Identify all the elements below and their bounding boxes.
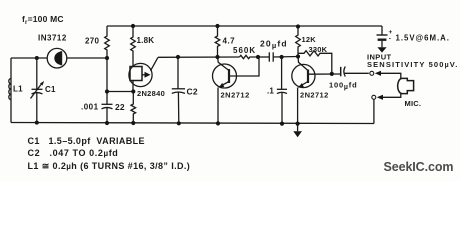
- svg-text:20µfd: 20µfd: [260, 39, 288, 51]
- audio rail wire: [158, 56, 240, 58]
- svg-text:2N2712: 2N2712: [221, 91, 250, 100]
- battery B1: [377, 26, 388, 47]
- svg-text:2N2712: 2N2712: [300, 91, 329, 100]
- ground battery: [377, 47, 386, 52]
- svg-text:.001: .001: [81, 103, 99, 112]
- wire 270 node down to .001: [106, 58, 108, 104]
- svg-text:-: -: [389, 36, 391, 43]
- microphone MIC: [398, 78, 414, 93]
- ground emitter: [293, 124, 302, 138]
- node Q2 emitter rail junction: [216, 121, 220, 125]
- node rail 12K top junction: [296, 24, 300, 28]
- svg-text:C1 1.5–5.0pf VARIABLE: C1 1.5–5.0pf VARIABLE: [28, 136, 145, 146]
- svg-text:MIC.: MIC.: [405, 99, 422, 108]
- node Q3 collector junction: [296, 54, 300, 58]
- node rail 4.7 top junction: [215, 24, 219, 28]
- svg-text:12K: 12K: [302, 35, 317, 44]
- top supply rail: [107, 25, 382, 27]
- capacitor C5 100ufd: [341, 67, 369, 77]
- svg-text:100µfd: 100µfd: [329, 81, 357, 92]
- left rail wire: [10, 58, 12, 123]
- svg-text:fr=100 MC: fr=100 MC: [22, 14, 64, 26]
- svg-text:1.8K: 1.8K: [137, 36, 155, 45]
- node .1 cap top junction: [280, 55, 284, 59]
- svg-text:330K: 330K: [309, 45, 328, 54]
- wire diode to 270 node: [67, 57, 107, 59]
- resistor R3 22: [131, 92, 136, 124]
- node Q2 collector junction: [215, 55, 219, 59]
- node C2 bottom junction: [177, 121, 181, 125]
- wire 270node to base node: [107, 91, 133, 93]
- svg-text:IN3712: IN3712: [38, 34, 67, 43]
- svg-text:SENSITIVITY 500µV.: SENSITIVITY 500µV.: [367, 60, 458, 69]
- capacitor C2: [172, 57, 185, 123]
- capacitor C3 20ufd: [258, 52, 298, 61]
- transistor Q3 2N2712: [292, 56, 341, 123]
- resistor R5 560K: [240, 55, 259, 58]
- node .1 cap bottom junction: [280, 122, 284, 126]
- bottom ground rail: [11, 123, 374, 124]
- svg-text:1.5V@6M.A.: 1.5V@6M.A.: [396, 34, 450, 43]
- node diode-270 junction: [105, 56, 109, 60]
- resistor R2 1.8K: [131, 26, 136, 67]
- mic arrow lower: [377, 94, 401, 100]
- node base wire left junction: [105, 89, 109, 93]
- node rail 1.8K top junction: [131, 24, 135, 28]
- resistor R4 4.7: [215, 26, 220, 57]
- terminal lower input: [372, 95, 376, 99]
- svg-text:C2 .047 TO 0.2µfd: C2 .047 TO 0.2µfd: [28, 148, 119, 158]
- svg-text:.1: .1: [267, 87, 274, 96]
- tunnel diode D1 1N3712: [47, 48, 67, 68]
- svg-text:22: 22: [115, 102, 125, 112]
- transistor Q2 2N2712: [213, 57, 260, 123]
- node 330K base junction: [330, 72, 334, 76]
- capacitor C .001: [102, 104, 113, 123]
- svg-text:4.7: 4.7: [223, 37, 236, 46]
- capacitor C4 .1: [277, 57, 287, 124]
- terminal upper input: [370, 71, 374, 75]
- svg-text:C1: C1: [45, 85, 56, 94]
- wire tank top left: [11, 57, 47, 59]
- svg-text:SeekIC.com: SeekIC.com: [384, 160, 454, 174]
- capacitor C1 variable: [31, 58, 45, 123]
- wire lower terminal to rail: [373, 100, 375, 124]
- svg-text:C2: C2: [187, 87, 198, 97]
- node Q1 bottom junction: [131, 89, 135, 93]
- svg-text:L1 ≅ 0.2µh (6 TURNS #16, 3/8”: L1 ≅ 0.2µh (6 TURNS #16, 3/8” I.D.): [28, 161, 191, 171]
- resistor R1 270: [105, 26, 110, 58]
- svg-text:270: 270: [85, 37, 99, 46]
- node 22 bottom junction: [131, 121, 135, 125]
- resistor R6 12K: [296, 27, 301, 57]
- resistor R7 330K: [298, 51, 332, 74]
- node .001 bottom junction: [105, 121, 109, 125]
- svg-text:2N2840: 2N2840: [137, 89, 165, 98]
- transistor Q1 2N2840: [129, 57, 158, 91]
- node ground rail junction: [296, 122, 300, 126]
- node 560K-20ufd junction: [256, 55, 260, 59]
- node C1 top junction: [35, 56, 39, 60]
- mic arrow upper: [375, 71, 401, 79]
- svg-text:560K: 560K: [233, 46, 256, 55]
- node C2 top junction: [176, 55, 180, 59]
- node C1 bottom junction: [35, 121, 39, 125]
- svg-text:L1: L1: [13, 85, 23, 94]
- inductor L1: [9, 79, 11, 100]
